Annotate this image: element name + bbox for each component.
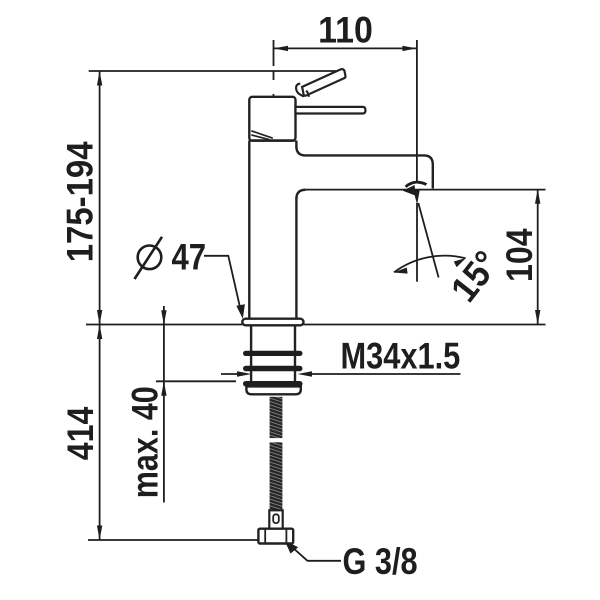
shank band 2 [243, 366, 303, 371]
arrowheads dimensions [97, 46, 541, 554]
dimension line 104 vertical [537, 189, 539, 324]
arrowhead 414 up [97, 325, 102, 340]
hex nut [258, 529, 293, 544]
shank sides [251, 325, 295, 383]
threaded rod lower [270, 442, 283, 510]
leader G 3/8 [287, 543, 341, 561]
angle arc [394, 256, 466, 273]
arrowhead 175-194 up [97, 71, 102, 86]
M34 label underline [311, 373, 461, 375]
center line faucet axis dash [273, 72, 275, 81]
arrowhead 104 down [535, 310, 540, 325]
arrowhead leader G38 [285, 540, 299, 553]
shank band 3 [243, 381, 303, 386]
arrowhead M34 right [298, 371, 313, 376]
extension line bottom (G3/8 level) [88, 539, 258, 541]
shank band 1 [243, 351, 303, 356]
diameter symbol circle [138, 245, 162, 269]
lever closed position bar [296, 107, 366, 114]
extension line mounting surface right [304, 324, 546, 326]
spout arm [296, 147, 432, 189]
flange escutcheon [242, 319, 303, 326]
center line faucet axis dash 2 [273, 94, 275, 108]
svg-text:M34x1.5: M34x1.5 [341, 336, 461, 377]
extension line mounting surface left [86, 324, 242, 326]
svg-text:110: 110 [318, 9, 373, 51]
dimension line max40 vertical [163, 306, 165, 503]
base group [242, 319, 303, 395]
body column [249, 141, 296, 319]
arrowhead arc left [394, 268, 408, 274]
dimension line 414 vertical [99, 325, 101, 541]
diameter symbol slash [135, 237, 163, 279]
lower flange [246, 386, 300, 394]
wedge parting lines [251, 131, 272, 140]
faucet head block [249, 97, 295, 141]
jet swoosh [406, 182, 427, 187]
svg-text:max. 40: max. 40 [125, 386, 166, 498]
dimension line 175-194 vertical [99, 71, 101, 325]
extension line top (handle top level) [89, 70, 344, 72]
arrowhead 110 left [274, 46, 289, 51]
extension line 110 left upper [273, 40, 275, 66]
extension line outlet level / spout underside [304, 189, 546, 191]
angle reference line vertical [416, 203, 418, 282]
nut flat line left [264, 529, 266, 544]
valve piece [269, 510, 282, 528]
M34 arrow tail left [221, 373, 238, 375]
arrowhead max40 down outside [161, 310, 166, 325]
svg-text:47: 47 [172, 237, 207, 278]
angle line tilted 15 deg [418, 203, 438, 278]
spout underside corner [296, 190, 305, 199]
jet arrowhead left [403, 185, 416, 196]
arrowhead 104 up [535, 189, 540, 204]
valve slot [273, 514, 279, 523]
svg-text:175-194: 175-194 [60, 141, 101, 262]
arrowhead leader 47 [236, 304, 245, 319]
leader diameter 47 [204, 256, 240, 309]
joint line head to body [249, 139, 295, 141]
handle boss right stroke [306, 91, 309, 97]
arrowhead 175-194 down [97, 310, 102, 325]
arrowhead 414 down [97, 526, 102, 541]
dimension line 110 horizontal [274, 47, 417, 49]
arrowhead max40 up outside [161, 381, 166, 396]
nut flat line right [285, 529, 287, 544]
arrowhead arc right [454, 258, 466, 267]
arrowhead 110 right [402, 46, 417, 51]
jet arrowhead down [413, 189, 420, 204]
svg-text:414: 414 [61, 406, 102, 460]
extension line 110 right / outlet vertical [416, 40, 418, 183]
lever bar raised [302, 69, 345, 96]
arrowhead M34 left [237, 371, 252, 376]
extension line 40 bottom [156, 380, 236, 382]
faucet body [249, 69, 432, 319]
svg-text:104: 104 [500, 228, 541, 282]
outlet jet symbol [403, 185, 420, 205]
handle boss curve [296, 84, 304, 97]
threaded rod upper [270, 397, 283, 438]
svg-text:G 3/8: G 3/8 [343, 542, 418, 583]
